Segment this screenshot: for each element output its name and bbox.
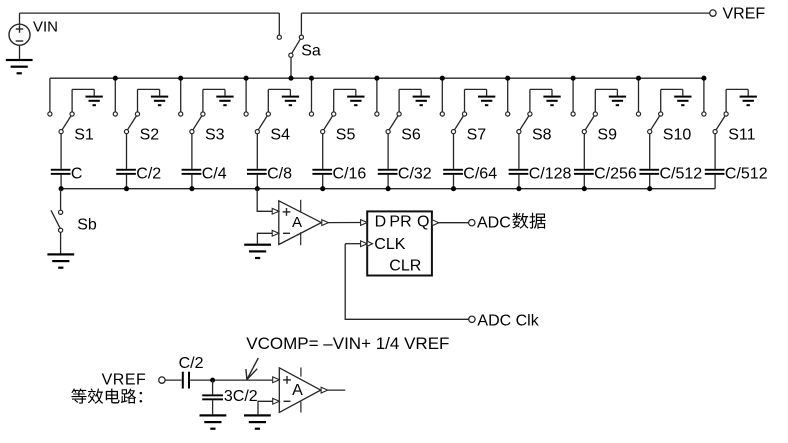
svg-text:S1: S1 xyxy=(74,126,94,143)
svg-text:VREF: VREF xyxy=(723,6,766,23)
svg-text:D: D xyxy=(375,213,387,230)
svg-text:Sa: Sa xyxy=(301,42,321,59)
svg-text:S5: S5 xyxy=(336,126,356,143)
svg-text:S10: S10 xyxy=(663,126,692,143)
svg-text:CLK: CLK xyxy=(374,236,405,253)
svg-text:VCOMP= –VIN+ 1/4 VREF: VCOMP= –VIN+ 1/4 VREF xyxy=(246,334,449,353)
svg-text:Sb: Sb xyxy=(77,216,97,233)
svg-text:C/32: C/32 xyxy=(398,166,432,183)
svg-text:A: A xyxy=(292,382,303,399)
svg-text:S4: S4 xyxy=(270,126,290,143)
svg-text:PR: PR xyxy=(389,213,411,230)
svg-text:S11: S11 xyxy=(728,126,755,143)
svg-text:ADC Clk: ADC Clk xyxy=(477,312,539,329)
svg-text:S9: S9 xyxy=(597,126,617,143)
svg-text:S2: S2 xyxy=(140,126,160,143)
svg-text:S7: S7 xyxy=(467,126,487,143)
svg-text:C/2: C/2 xyxy=(136,166,161,183)
svg-text:S3: S3 xyxy=(205,126,225,143)
svg-text:CLR: CLR xyxy=(389,257,421,274)
svg-text:A: A xyxy=(292,214,302,231)
svg-text:C/8: C/8 xyxy=(267,166,292,183)
svg-text:VIN: VIN xyxy=(33,19,58,36)
svg-text:Q: Q xyxy=(417,213,429,230)
svg-text:C/64: C/64 xyxy=(463,166,497,183)
svg-text:S6: S6 xyxy=(401,126,421,143)
svg-text:C/128: C/128 xyxy=(529,166,572,183)
svg-text:ADC: ADC xyxy=(477,214,511,231)
svg-text:3C/2: 3C/2 xyxy=(224,388,258,405)
svg-text:C/2: C/2 xyxy=(179,355,204,372)
svg-text:C/256: C/256 xyxy=(594,166,637,183)
svg-text:C/4: C/4 xyxy=(202,166,227,183)
svg-text:C/512: C/512 xyxy=(660,166,703,183)
svg-text:C/512: C/512 xyxy=(725,166,768,183)
svg-text:VREF: VREF xyxy=(102,372,147,389)
svg-text:S8: S8 xyxy=(532,126,552,143)
svg-text:C: C xyxy=(71,166,83,183)
svg-text:C/16: C/16 xyxy=(333,166,367,183)
